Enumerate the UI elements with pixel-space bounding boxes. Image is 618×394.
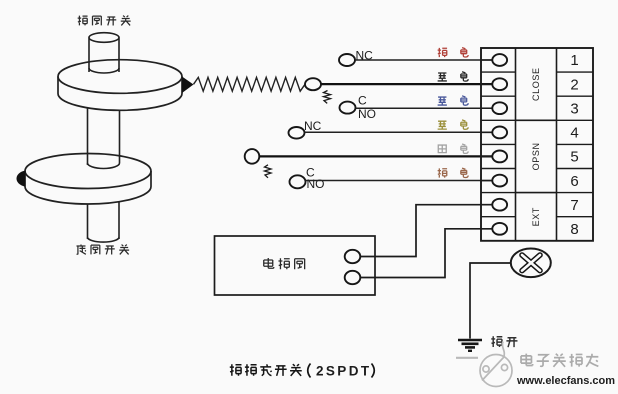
svg-text:CLOSE: CLOSE — [531, 67, 541, 101]
svg-text:EXT: EXT — [531, 207, 541, 226]
svg-text:8: 8 — [570, 221, 578, 238]
contact circle: switch2 common — [245, 149, 260, 164]
svg-text:4: 4 — [570, 125, 578, 142]
label wire-colour 黑色 — [438, 72, 469, 81]
wire solenoid lower to terminal 8 — [360, 229, 492, 278]
switch1 spring symbol — [324, 91, 331, 104]
label solenoid 电磁阀 — [264, 258, 305, 269]
middle shaft — [88, 108, 120, 169]
title parenthesis left — [308, 364, 311, 378]
label top-switch 顶部开关 — [78, 16, 131, 26]
terminal block column dividers — [516, 48, 557, 241]
title 机械式开关 — [230, 364, 302, 376]
wire white (common2 to terminal 5) — [259, 155, 492, 157]
wire blue (NO1 to terminal 3) — [356, 107, 493, 109]
contact circle: switch1 NO — [340, 102, 356, 114]
top shaft cylinder — [89, 33, 119, 73]
title parenthesis right — [372, 364, 375, 378]
solenoid valve box — [215, 236, 376, 295]
svg-text:2SPDT: 2SPDT — [316, 364, 372, 379]
terminal 8 screw — [481, 223, 507, 235]
wire red (NC1 to terminal 1) — [355, 59, 492, 61]
motor symbol (circle with X) — [511, 248, 551, 277]
svg-text:6: 6 — [570, 173, 578, 190]
spring (cam follower to common contact) — [194, 77, 306, 91]
cam follower tip (top, filled) — [182, 77, 194, 94]
terminal 3 screw — [481, 102, 507, 114]
terminal block group dividers (CLOSE/OPSN/EXT column) — [516, 120, 557, 192]
svg-text:NO: NO — [307, 177, 325, 191]
svg-text:3: 3 — [570, 101, 578, 118]
label wire-colour 红色 — [438, 48, 469, 57]
wire yellow (NC2 to terminal 4) — [305, 131, 493, 133]
svg-text:1: 1 — [570, 52, 578, 69]
wire motor to earth — [470, 263, 511, 339]
contact circle: switch2 NC — [289, 127, 305, 139]
wire brown (NO2 to terminal 6) — [306, 180, 493, 182]
solenoid terminal lower — [345, 271, 361, 284]
wire solenoid upper to terminal 7 — [360, 205, 492, 257]
label earth 接地 — [491, 336, 517, 347]
label wire-colour 蓝色 — [438, 96, 469, 105]
svg-text:C: C — [358, 93, 367, 107]
bottom shaft — [88, 202, 120, 243]
svg-text:7: 7 — [570, 197, 578, 214]
terminal 6 screw — [481, 175, 507, 187]
watermark logo — [480, 342, 512, 387]
terminal block outer frame — [481, 48, 593, 241]
terminal block row dividers (number column) — [557, 72, 594, 217]
wire black (common1 to terminal 2) — [321, 83, 492, 85]
label wire-colour 黄色 — [438, 120, 469, 129]
terminal 2 screw — [481, 78, 507, 90]
contact circle: switch1 common — [305, 78, 321, 90]
top cam disc — [58, 60, 182, 111]
terminal 4 screw — [481, 126, 507, 138]
switch2 spring symbol — [265, 165, 272, 178]
label wire-colour 棕色 — [438, 168, 469, 177]
contact circle: switch2 NO — [290, 175, 306, 188]
bottom cam disc — [25, 154, 151, 205]
terminal 7 screw — [481, 199, 507, 211]
solenoid terminal upper — [345, 250, 361, 263]
label wire-colour 白色 — [438, 144, 468, 153]
cam follower tip (bottom, filled) — [16, 171, 25, 187]
terminal block row dividers (screw column) — [481, 72, 516, 217]
svg-text:OPSN: OPSN — [531, 142, 541, 170]
earth ground symbol — [456, 340, 482, 358]
watermark 电子发烧友 — [521, 354, 598, 367]
svg-text:NC: NC — [304, 119, 322, 133]
contact circle: switch1 NC — [339, 54, 355, 66]
svg-text:2: 2 — [570, 76, 578, 93]
svg-text:5: 5 — [570, 149, 578, 166]
label bottom-switch 底部开关 — [76, 244, 129, 254]
svg-text:www.elecfans.com: www.elecfans.com — [516, 375, 615, 387]
terminal 1 screw — [481, 54, 507, 66]
terminal 5 screw — [481, 151, 507, 163]
